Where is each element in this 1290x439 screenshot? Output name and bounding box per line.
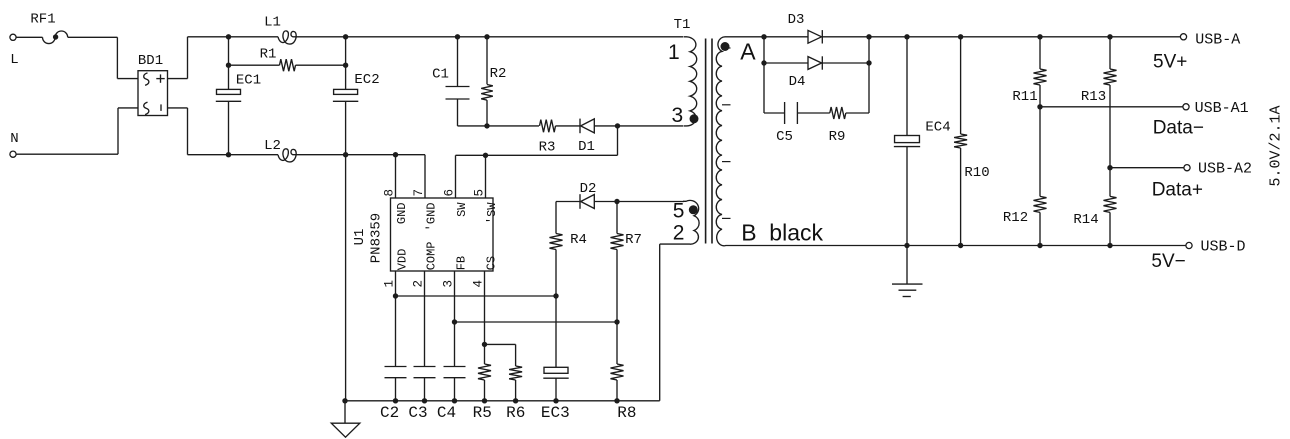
svg-text:B: B (741, 219, 756, 245)
svg-text:FB: FB (454, 256, 468, 270)
svg-text:RF1: RF1 (30, 11, 55, 27)
svg-text:'SW: 'SW (485, 202, 499, 224)
svg-text:SW: SW (455, 202, 469, 217)
svg-text:C5: C5 (776, 129, 793, 145)
svg-text:4: 4 (471, 280, 485, 288)
svg-text:C3: C3 (408, 404, 427, 422)
svg-text:2: 2 (673, 221, 685, 244)
svg-text:A: A (740, 39, 756, 65)
svg-text:BD1: BD1 (138, 53, 163, 69)
svg-text:D1: D1 (578, 139, 595, 155)
svg-text:L: L (10, 52, 18, 68)
svg-text:1: 1 (668, 41, 680, 64)
svg-text:USB-A2: USB-A2 (1198, 161, 1252, 178)
svg-text:D2: D2 (580, 181, 597, 197)
svg-text:EC4: EC4 (925, 119, 950, 135)
svg-text:R11: R11 (1012, 89, 1037, 105)
svg-text:Data−: Data− (1153, 117, 1204, 138)
svg-text:D4: D4 (789, 74, 806, 90)
svg-text:7: 7 (412, 189, 426, 197)
svg-text:COMP: COMP (424, 241, 438, 270)
svg-text:T1: T1 (674, 17, 691, 33)
svg-text:5.0V/2.1A: 5.0V/2.1A (1268, 105, 1285, 186)
svg-text:2: 2 (411, 280, 425, 288)
svg-text:CS: CS (484, 256, 498, 270)
svg-text:R3: R3 (539, 139, 556, 155)
svg-text:VDD: VDD (395, 249, 409, 271)
svg-text:3: 3 (441, 280, 455, 288)
svg-text:R5: R5 (473, 404, 492, 422)
svg-text:5: 5 (673, 200, 685, 223)
svg-text:R6: R6 (506, 404, 525, 422)
svg-text:R7: R7 (625, 232, 642, 248)
svg-text:Data+: Data+ (1152, 179, 1203, 200)
svg-text:R10: R10 (964, 165, 989, 181)
svg-text:USB-A1: USB-A1 (1195, 100, 1249, 117)
svg-text:N: N (10, 131, 18, 147)
svg-text:5V−: 5V− (1151, 251, 1185, 272)
svg-text:5: 5 (472, 189, 486, 197)
svg-text:5V+: 5V+ (1153, 52, 1187, 73)
svg-text:C1: C1 (432, 66, 449, 82)
svg-text:R12: R12 (1003, 210, 1028, 226)
svg-text:L2: L2 (264, 138, 281, 154)
svg-text:6: 6 (442, 189, 456, 197)
svg-text:R4: R4 (570, 232, 587, 248)
svg-text:8: 8 (382, 189, 396, 197)
svg-text:PN8359: PN8359 (368, 213, 384, 263)
svg-text:D3: D3 (788, 12, 805, 28)
svg-text:R8: R8 (617, 404, 636, 422)
svg-text:L1: L1 (264, 14, 281, 30)
svg-text:EC2: EC2 (354, 72, 379, 88)
svg-text:black: black (769, 219, 823, 245)
svg-text:R2: R2 (490, 66, 507, 82)
svg-text:EC3: EC3 (541, 404, 570, 422)
svg-text:R13: R13 (1081, 89, 1106, 105)
svg-text:C4: C4 (437, 404, 456, 422)
svg-text:USB-A: USB-A (1195, 32, 1240, 49)
svg-text:R9: R9 (829, 129, 846, 145)
svg-text:R1: R1 (260, 46, 277, 62)
svg-text:R14: R14 (1073, 212, 1098, 228)
svg-text:GND: GND (395, 203, 409, 225)
svg-text:'GND: 'GND (424, 203, 438, 232)
svg-text:C2: C2 (380, 404, 399, 422)
svg-text:1: 1 (382, 280, 396, 288)
svg-text:U1: U1 (352, 229, 368, 246)
svg-text:3: 3 (672, 104, 684, 127)
svg-text:EC1: EC1 (236, 72, 261, 88)
svg-text:USB-D: USB-D (1201, 238, 1246, 255)
